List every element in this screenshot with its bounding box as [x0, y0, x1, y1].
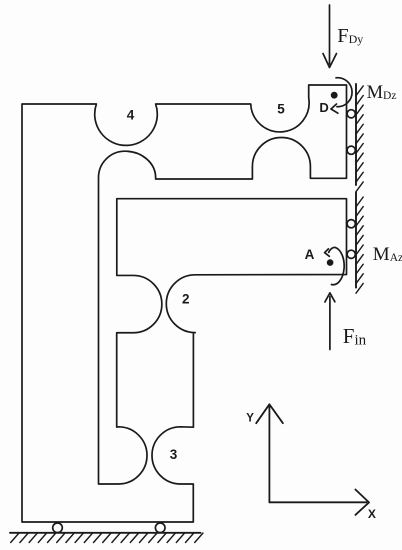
node A dot: [327, 259, 334, 266]
mechanism outline (monolithic flexure part): [22, 85, 347, 522]
roller A2: [347, 250, 355, 258]
roller A1: [347, 220, 355, 228]
wall hatching at D: [356, 86, 363, 192]
svg-text:FDy: FDy: [337, 25, 363, 47]
svg-text:2: 2: [182, 292, 190, 307]
svg-text:A: A: [305, 247, 315, 262]
Y axis: [256, 404, 283, 502]
wall hatching at A: [356, 197, 363, 293]
node D dot: [331, 92, 338, 99]
svg-text:Fin: Fin: [343, 324, 367, 348]
F_Dy force arrow: [323, 5, 337, 68]
roller under base 2: [155, 523, 165, 533]
F_in input force arrow: [325, 293, 335, 350]
svg-text:D: D: [319, 100, 328, 115]
svg-text:X: X: [368, 507, 376, 521]
moment arrow M_Dz (curved, at D): [336, 78, 352, 107]
wall support at A: [355, 192, 357, 287]
roller D2: [347, 146, 355, 154]
X axis: [269, 490, 369, 515]
svg-text:5: 5: [277, 101, 285, 116]
wall support at D: [355, 84, 357, 185]
ground hatching: [11, 533, 203, 543]
svg-text:MAz: MAz: [373, 244, 402, 265]
moment arrow M_Az (curved, at A): [329, 247, 344, 284]
svg-text:4: 4: [127, 108, 135, 123]
roller under base 1: [53, 523, 63, 533]
svg-text:Y: Y: [246, 412, 254, 424]
ground line: [10, 532, 201, 534]
svg-text:3: 3: [170, 447, 178, 462]
svg-text:MDz: MDz: [367, 83, 397, 103]
roller D1: [347, 110, 355, 118]
